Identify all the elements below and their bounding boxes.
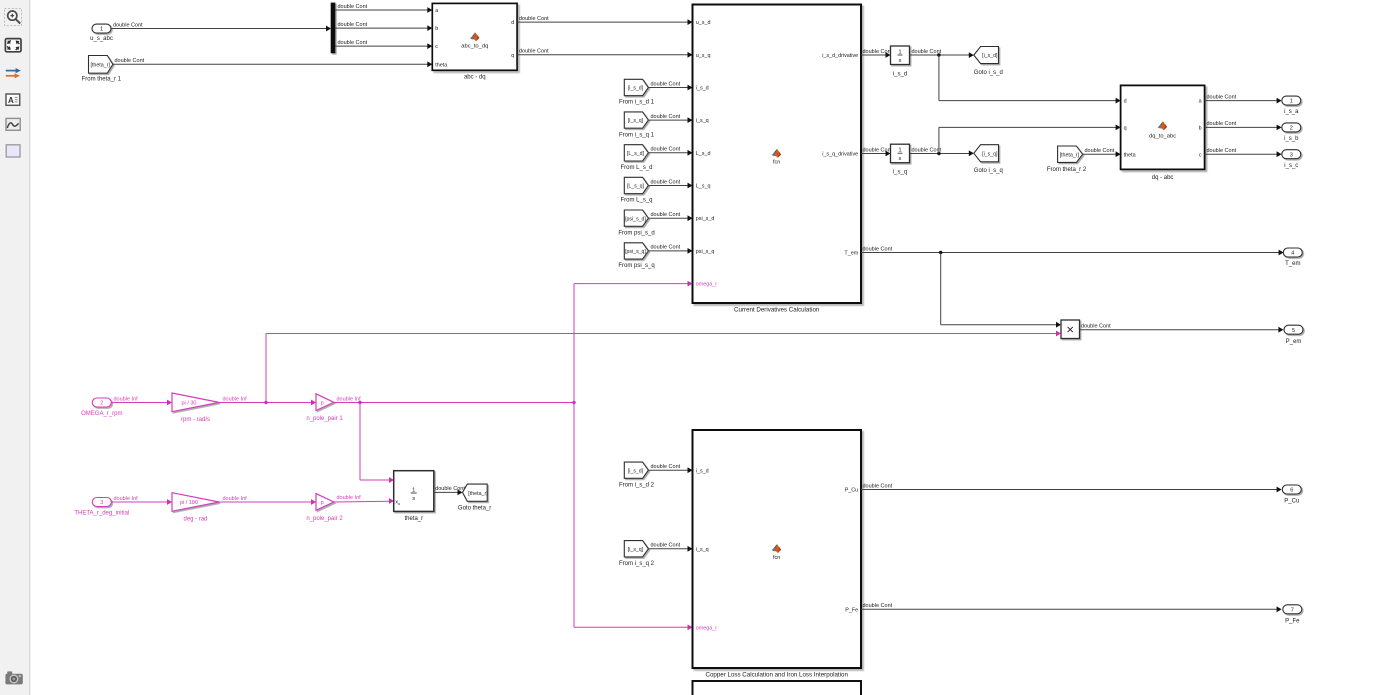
svg-text:double Cont: double Cont bbox=[651, 81, 681, 87]
wire demux c to abc_to_dq bbox=[335, 45, 428, 47]
svg-text:dq_to_abc: dq_to_abc bbox=[1149, 134, 1176, 140]
wire From L_s_q to block bbox=[648, 185, 688, 187]
svg-text:1: 1 bbox=[898, 49, 901, 55]
svg-text:u_s_q: u_s_q bbox=[696, 53, 711, 59]
svg-text:2: 2 bbox=[100, 401, 103, 407]
wire dq_to_abc to outport 2 bbox=[1205, 126, 1277, 128]
svg-text:double Cont: double Cont bbox=[1207, 94, 1237, 100]
svg-text:double Cont: double Cont bbox=[338, 4, 368, 10]
wire u_s_abc to demux bbox=[111, 28, 327, 30]
product block P_em (x) bbox=[1061, 320, 1080, 339]
wire omega vertical to block2 omega_r bbox=[573, 403, 575, 628]
svg-text:i_s_b: i_s_b bbox=[1284, 136, 1299, 142]
svg-text:P_em: P_em bbox=[1286, 339, 1302, 345]
svg-text:dq - abc: dq - abc bbox=[1152, 175, 1174, 181]
From tag From i_s_q 2 bbox=[624, 541, 648, 557]
svg-text:7: 7 bbox=[1291, 607, 1294, 613]
wire branch T_em down to product bbox=[940, 253, 942, 325]
Goto tag i_s_q bbox=[974, 145, 999, 162]
svg-text:[L_s_q]: [L_s_q] bbox=[627, 184, 645, 190]
wire gain pi/180 to n_pole_pair 2 bbox=[219, 501, 312, 503]
svg-text:P_Cu: P_Cu bbox=[1284, 499, 1299, 505]
toolbar icon: signal arrows (blue/orange) bbox=[6, 68, 21, 78]
svg-text:Goto i_s_q: Goto i_s_q bbox=[974, 168, 1003, 174]
svg-text:s: s bbox=[899, 58, 902, 64]
toolbar icon: area box (lavender) bbox=[6, 145, 20, 157]
svg-text:i_s_q: i_s_q bbox=[696, 118, 709, 124]
svg-text:i_s_c: i_s_c bbox=[1284, 163, 1298, 169]
svg-text:double Cont: double Cont bbox=[435, 486, 465, 492]
svg-text:double Inf: double Inf bbox=[337, 396, 362, 402]
svg-text:double Cont: double Cont bbox=[519, 16, 549, 22]
svg-text:double Cont: double Cont bbox=[863, 483, 893, 489]
wire dq_to_abc to outport 3 bbox=[1205, 153, 1277, 155]
svg-text:From theta_r 1: From theta_r 1 bbox=[82, 77, 122, 83]
svg-text:[i_s_d]: [i_s_d] bbox=[628, 86, 644, 92]
wire From L_s_d to block bbox=[648, 152, 688, 154]
svg-text:[i_s_q]: [i_s_q] bbox=[982, 151, 998, 157]
subsystem block (cut off at bottom) bbox=[693, 681, 862, 695]
outport 6 P_Cu bbox=[1282, 485, 1301, 494]
wire From i_s_q 2 to block bbox=[648, 548, 688, 550]
svg-text:i_s_q: i_s_q bbox=[696, 547, 709, 553]
Goto tag i_s_d bbox=[974, 47, 999, 64]
svg-text:From i_s_d 2: From i_s_d 2 bbox=[619, 482, 655, 488]
From tag From L_s_d bbox=[624, 145, 648, 161]
svg-text:double Inf: double Inf bbox=[114, 496, 139, 502]
svg-text:P_Fe: P_Fe bbox=[845, 607, 858, 613]
svg-text:[theta_r]: [theta_r] bbox=[1060, 152, 1080, 158]
integrator block i_s_q (1/s) bbox=[861, 153, 886, 155]
outport 5 P_em bbox=[1284, 325, 1303, 334]
From tag theta_r 1 bbox=[89, 56, 113, 74]
svg-text:3: 3 bbox=[100, 500, 103, 506]
svg-text:THETA_r_deg_initial: THETA_r_deg_initial bbox=[74, 510, 129, 516]
outport 3 i_s_c bbox=[1282, 150, 1301, 159]
toolbar icon: screenshot camera bbox=[5, 671, 22, 684]
svg-text:[theta_r]: [theta_r] bbox=[468, 491, 488, 497]
svg-text:i_s_q: i_s_q bbox=[893, 170, 907, 176]
svg-text:fcn: fcn bbox=[773, 160, 780, 166]
svg-text:d: d bbox=[511, 20, 514, 26]
svg-text:[i_s_q]: [i_s_q] bbox=[628, 118, 644, 124]
wire T_em to outport 4 bbox=[861, 252, 1279, 254]
svg-text:double Cont: double Cont bbox=[338, 40, 368, 46]
svg-text:double Cont: double Cont bbox=[1081, 324, 1111, 330]
MATLAB Function block abc_to_dq (abc - dq) bbox=[432, 3, 517, 70]
toolbar palette background bbox=[0, 0, 30, 695]
svg-text:i_s_q_drivative: i_s_q_drivative bbox=[822, 152, 858, 158]
junction node omega vertical bbox=[572, 401, 575, 404]
svg-text:Goto theta_r: Goto theta_r bbox=[458, 505, 491, 511]
svg-text:double Cont: double Cont bbox=[651, 114, 681, 120]
svg-text:b: b bbox=[435, 26, 438, 32]
wire dq_to_abc to outport 1 bbox=[1205, 100, 1277, 102]
wire From theta_r 1 to abc_to_dq theta bbox=[113, 63, 428, 65]
svg-text:double Cont: double Cont bbox=[651, 245, 681, 251]
svg-text:double Cont: double Cont bbox=[863, 147, 893, 153]
outport 4 T_em bbox=[1283, 248, 1302, 257]
svg-text:From i_s_q 2: From i_s_q 2 bbox=[619, 561, 655, 567]
svg-text:q: q bbox=[511, 53, 514, 59]
From tag From i_s_d 1 bbox=[624, 79, 648, 95]
branch node i_s_q bbox=[937, 152, 940, 155]
svg-text:double Cont: double Cont bbox=[651, 543, 681, 549]
svg-text:u_s_abc: u_s_abc bbox=[90, 36, 113, 42]
svg-text:double Cont: double Cont bbox=[115, 58, 145, 64]
wire abc_to_dq d to u_s_d bbox=[517, 21, 688, 23]
svg-text:5: 5 bbox=[1292, 328, 1295, 334]
svg-text:From i_s_q 1: From i_s_q 1 bbox=[619, 132, 655, 138]
From tag From psi_s_d bbox=[624, 210, 648, 226]
branch node T_em bbox=[939, 251, 942, 254]
svg-text:[i_s_d]: [i_s_d] bbox=[982, 53, 998, 59]
svg-text:rpm - rad/s: rpm - rad/s bbox=[181, 417, 210, 423]
svg-text:L_s_q: L_s_q bbox=[696, 184, 711, 190]
subsystem block Current Derivatives Calculation bbox=[693, 5, 862, 304]
toolbar icon: zoom to region (magnifier) bbox=[5, 9, 22, 26]
svg-text:double Cont: double Cont bbox=[338, 22, 368, 28]
From tag From L_s_q bbox=[624, 177, 648, 193]
svg-text:[i_s_q]: [i_s_q] bbox=[628, 547, 644, 553]
svg-text:P_Fe: P_Fe bbox=[1285, 618, 1300, 624]
svg-text:psi_s_d: psi_s_d bbox=[696, 216, 715, 222]
svg-text:From psi_s_d: From psi_s_d bbox=[618, 230, 654, 236]
wire demux a to abc_to_dq bbox=[335, 9, 428, 11]
From tag From i_s_d 2 bbox=[624, 462, 648, 478]
svg-text:double Cont: double Cont bbox=[863, 49, 893, 55]
svg-text:i_s_d: i_s_d bbox=[893, 71, 907, 77]
MATLAB Function block dq_to_abc (dq - abc) bbox=[1121, 85, 1205, 169]
wire abc_to_dq q to u_s_q bbox=[517, 54, 688, 56]
svg-text:i_s_d_drivative: i_s_d_drivative bbox=[822, 53, 858, 59]
svg-text:abc_to_dq: abc_to_dq bbox=[461, 43, 488, 49]
svg-text:i_s_d: i_s_d bbox=[696, 468, 709, 474]
wire i_s_q integrator to Goto i_s_q bbox=[910, 153, 970, 155]
svg-text:n_pole_pair 1: n_pole_pair 1 bbox=[306, 416, 343, 422]
svg-text:4: 4 bbox=[1291, 251, 1294, 257]
svg-text:1: 1 bbox=[100, 27, 103, 33]
svg-text:abc - dq: abc - dq bbox=[464, 74, 486, 80]
wire From i_s_q 1 to block bbox=[648, 119, 688, 121]
wire From psi_s_q to block bbox=[648, 250, 688, 252]
svg-text:double Inf: double Inf bbox=[337, 495, 362, 501]
From tag theta_r 2 bbox=[1058, 146, 1083, 162]
wire P_Cu to outport 6 bbox=[861, 489, 1277, 491]
svg-text:double Cont: double Cont bbox=[651, 147, 681, 153]
svg-text:pi / 180: pi / 180 bbox=[180, 500, 198, 506]
svg-text:6: 6 bbox=[1290, 488, 1293, 494]
svg-text:1: 1 bbox=[898, 148, 901, 154]
toolbar icon: fit to view bbox=[5, 39, 21, 52]
outport 2 i_s_b bbox=[1282, 123, 1301, 132]
outport 1 i_s_a bbox=[1282, 96, 1301, 105]
svg-text:psi_s_q: psi_s_q bbox=[696, 249, 715, 255]
gain block pi/30 (rpm - rad/s) bbox=[172, 393, 219, 412]
svg-text:[psi_s_q]: [psi_s_q] bbox=[625, 249, 646, 255]
svg-text:T_em: T_em bbox=[1285, 261, 1300, 267]
svg-text:double Cont: double Cont bbox=[519, 49, 549, 55]
svg-text:Current Derivatives Calculatio: Current Derivatives Calculation bbox=[734, 307, 820, 314]
svg-text:double Cont: double Cont bbox=[863, 603, 893, 609]
inport 3 THETA_r_deg_initial (magenta) bbox=[92, 498, 111, 507]
svg-text:From L_s_d: From L_s_d bbox=[620, 165, 652, 171]
svg-text:From psi_s_q: From psi_s_q bbox=[618, 263, 654, 269]
svg-text:b: b bbox=[1199, 126, 1202, 132]
svg-text:2: 2 bbox=[1290, 126, 1293, 132]
svg-text:P_Cu: P_Cu bbox=[845, 488, 859, 494]
svg-text:omega_r: omega_r bbox=[696, 625, 717, 631]
svg-text:o: o bbox=[398, 502, 400, 506]
svg-text:double Inf: double Inf bbox=[114, 396, 139, 402]
svg-text:pi / 30: pi / 30 bbox=[182, 401, 197, 407]
svg-text:[theta_r]: [theta_r] bbox=[90, 62, 110, 68]
svg-text:L_s_d: L_s_d bbox=[696, 151, 711, 157]
svg-text:From theta_r 2: From theta_r 2 bbox=[1047, 167, 1087, 173]
wire From theta_r 2 to dq_to_abc theta bbox=[1083, 153, 1116, 155]
svg-text:fcn: fcn bbox=[773, 555, 780, 561]
inport 1 u_s_abc bbox=[92, 24, 111, 33]
subsystem block Copper Loss Calculation and Iron Loss Interpolation bbox=[693, 430, 862, 668]
wire n_pole_pair 1 to junction bbox=[334, 402, 574, 404]
svg-text:double Cont: double Cont bbox=[1207, 121, 1237, 127]
svg-text:[i_s_d]: [i_s_d] bbox=[628, 468, 644, 474]
toolbar icon: annotation A bbox=[6, 94, 20, 105]
svg-text:[L_s_d]: [L_s_d] bbox=[627, 151, 645, 157]
svg-text:theta_r: theta_r bbox=[404, 516, 423, 522]
wire branch down to theta_r integrator input bbox=[359, 403, 361, 481]
svg-text:double Inf: double Inf bbox=[223, 496, 248, 502]
svg-text:3: 3 bbox=[1290, 152, 1293, 158]
svg-text:double Cont: double Cont bbox=[651, 179, 681, 185]
gain block p (n_pole_pair 1) bbox=[316, 394, 334, 411]
wire branch i_s_d down to dq_to_abc d bbox=[938, 55, 940, 101]
svg-text:1: 1 bbox=[1290, 99, 1293, 105]
svg-text:T_em: T_em bbox=[844, 251, 858, 257]
svg-text:double Cont: double Cont bbox=[113, 22, 143, 28]
wire theta_r integrator to Goto theta_r bbox=[434, 491, 458, 493]
svg-text:omega_r: omega_r bbox=[696, 282, 717, 288]
branch node i_s_d bbox=[937, 53, 940, 56]
wire i_s_d integrator to Goto i_s_d bbox=[910, 54, 970, 56]
svg-text:double Cont: double Cont bbox=[912, 147, 942, 153]
svg-text:i_s_d: i_s_d bbox=[696, 86, 709, 92]
svg-text:double Cont: double Cont bbox=[1085, 148, 1115, 154]
wire From i_s_d 1 to block bbox=[648, 87, 688, 89]
inport 2 OMEGA_r_rpm (magenta) bbox=[92, 398, 111, 407]
svg-text:[psi_s_d]: [psi_s_d] bbox=[625, 216, 646, 222]
svg-text:From L_s_q: From L_s_q bbox=[620, 198, 652, 204]
wire n_pole_pair 2 to theta_r x0 bbox=[334, 500, 390, 503]
branch node to theta_r integrator bbox=[358, 401, 361, 404]
svg-text:n_pole_pair 2: n_pole_pair 2 bbox=[306, 516, 343, 522]
integrator block i_s_d (1/s) bbox=[861, 54, 886, 56]
svg-text:Goto i_s_d: Goto i_s_d bbox=[974, 70, 1003, 76]
wire demux b to abc_to_dq bbox=[335, 27, 428, 29]
gain block p (n_pole_pair 2) bbox=[316, 494, 334, 511]
svg-text:double Cont: double Cont bbox=[651, 464, 681, 470]
wire inport3 to gain deg-rad bbox=[112, 501, 168, 503]
svg-text:s: s bbox=[412, 496, 415, 502]
wire gain pi/30 to n_pole_pair 1 bbox=[219, 402, 312, 404]
svg-text:p: p bbox=[321, 401, 324, 407]
svg-text:c: c bbox=[435, 44, 438, 50]
svg-text:A: A bbox=[8, 96, 14, 105]
svg-text:a: a bbox=[435, 8, 438, 14]
wire From psi_s_d to block bbox=[648, 217, 688, 219]
wire branch up and right to product (omega) bbox=[265, 334, 267, 403]
svg-text:OMEGA_r_rpm: OMEGA_r_rpm bbox=[81, 411, 122, 417]
svg-text:deg - rad: deg - rad bbox=[183, 517, 207, 523]
demux selector bar bbox=[331, 3, 336, 54]
svg-text:double Cont: double Cont bbox=[863, 246, 893, 252]
svg-text:double Cont: double Cont bbox=[1207, 148, 1237, 154]
Goto tag theta_r bbox=[463, 484, 488, 501]
svg-text:d: d bbox=[1124, 99, 1127, 105]
svg-text:From i_s_d 1: From i_s_d 1 bbox=[619, 100, 655, 106]
wire inport2 to gain rpm-rad/s bbox=[112, 402, 168, 404]
svg-text:1: 1 bbox=[412, 487, 415, 493]
wire branch i_s_q up to dq_to_abc q bbox=[938, 127, 940, 153]
svg-text:double Cont: double Cont bbox=[651, 212, 681, 218]
svg-text:p: p bbox=[321, 500, 324, 506]
svg-text:q: q bbox=[1124, 126, 1127, 132]
svg-text:u_s_d: u_s_d bbox=[696, 20, 711, 26]
wire From i_s_d 2 to block bbox=[648, 469, 688, 471]
svg-text:double Cont: double Cont bbox=[912, 49, 942, 55]
svg-text:Copper Loss Calculation and Ir: Copper Loss Calculation and Iron Loss In… bbox=[705, 671, 848, 678]
svg-text:c: c bbox=[1199, 152, 1202, 158]
toolbar icon: signal viewer scope bbox=[6, 118, 20, 130]
svg-text:a: a bbox=[1199, 99, 1202, 105]
svg-text:theta: theta bbox=[1124, 152, 1136, 158]
svg-text:theta: theta bbox=[435, 62, 447, 68]
svg-text:s: s bbox=[899, 156, 902, 162]
wire P_Fe to outport 7 bbox=[861, 608, 1277, 610]
svg-text:double Inf: double Inf bbox=[223, 396, 248, 402]
wire omega vertical to block1 omega_r bbox=[573, 284, 575, 403]
wire product to outport 5 bbox=[1080, 329, 1280, 331]
From tag From i_s_q 1 bbox=[624, 112, 648, 128]
From tag From psi_s_q bbox=[624, 243, 648, 259]
svg-text:i_s_a: i_s_a bbox=[1284, 109, 1299, 115]
branch node omega to product bbox=[264, 401, 267, 404]
integrator block theta_r (1/s with x0) bbox=[394, 471, 434, 512]
outport 7 P_Fe bbox=[1283, 605, 1302, 614]
gain block pi/180 (deg - rad) bbox=[172, 493, 219, 512]
